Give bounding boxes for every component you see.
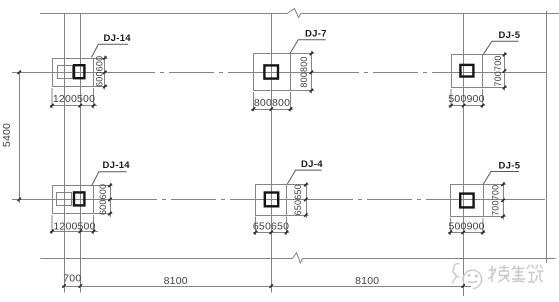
dim DJ-7 horizontal ext right bbox=[290, 92, 292, 112]
tick 5400 bottom bbox=[18, 198, 21, 201]
dim DJ-14 bottom horizontal 1200/500 line bbox=[50, 231, 98, 233]
dim DJ-7 vertical 800/800 line bbox=[311, 51, 313, 94]
svg-text:650650: 650650 bbox=[293, 184, 303, 215]
dim DJ-14 bottom horizontal ext left bbox=[51, 215, 53, 234]
ticks DJ-5 bottom vertical bbox=[501, 183, 504, 218]
top boundary line bbox=[40, 13, 559, 15]
svg-text:DJ-5: DJ-5 bbox=[499, 160, 521, 171]
dim DJ-5 bottom horizontal 500/900 line bbox=[448, 232, 485, 234]
ticks DJ-14 top vertical bbox=[103, 56, 106, 88]
svg-text:500900: 500900 bbox=[448, 221, 484, 233]
svg-text:600600: 600600 bbox=[98, 184, 108, 215]
svg-text:1200500: 1200500 bbox=[53, 93, 95, 105]
dim DJ-4 horizontal 650/650 line bbox=[253, 232, 289, 234]
footing DJ-7 : column bbox=[264, 65, 278, 78]
footing DJ-14 top : outline bbox=[53, 59, 94, 87]
dim DJ-4 horizontal ext right bbox=[286, 217, 288, 236]
bottom boundary line bbox=[41, 258, 556, 260]
break symbol top bbox=[287, 9, 301, 18]
dim DJ-14 top horizontal ext right bbox=[93, 88, 95, 109]
right boundary line bbox=[546, 11, 548, 263]
break symbol bottom bbox=[293, 253, 303, 263]
dim DJ-14 bottom horizontal ext right bbox=[93, 215, 95, 234]
dim DJ-4 horizontal ext left bbox=[255, 217, 257, 236]
svg-text:DJ-14: DJ-14 bbox=[103, 160, 131, 171]
svg-text:8100: 8100 bbox=[355, 275, 379, 287]
dim DJ-4 vertical ext top bbox=[287, 184, 309, 186]
dim DJ-14 top horizontal ext left bbox=[51, 88, 53, 109]
dim DJ-5 top vertical 700/700 line bbox=[504, 52, 506, 91]
dim DJ-14 bottom vertical 600/600 line bbox=[110, 183, 112, 217]
row axis B (y=199.4) center line bbox=[12, 199, 547, 201]
label DJ-4 leader bbox=[287, 170, 322, 185]
dim DJ-14 top vertical 600/600 line bbox=[104, 56, 106, 90]
svg-text:500900: 500900 bbox=[448, 93, 484, 105]
footing DJ-5 bottom : outline bbox=[451, 185, 484, 217]
label DJ-5 bottom leader bbox=[483, 172, 519, 185]
grid line 3 (x=271.2) bbox=[271, 14, 273, 293]
grid line 4 (x=463.2) bbox=[463, 14, 465, 297]
svg-text:700700: 700700 bbox=[491, 185, 501, 216]
row axis A (y=72.3) center line bbox=[12, 72, 547, 74]
tick 5400 top bbox=[18, 71, 21, 74]
footing DJ-4 : column bbox=[265, 193, 278, 207]
dim DJ-5 bottom vertical 700/700 line bbox=[503, 182, 505, 220]
footing DJ-14 bottom : pedestal bbox=[57, 193, 72, 206]
svg-text:1200500: 1200500 bbox=[53, 220, 95, 232]
dim DJ-5 bottom vertical ext top bbox=[483, 184, 506, 186]
label DJ-14 top leader bbox=[92, 44, 129, 57]
ticks DJ-5 top horizontal bbox=[449, 104, 484, 107]
svg-text:DJ-4: DJ-4 bbox=[301, 159, 323, 170]
dim DJ-4 vertical 650/650 line bbox=[306, 183, 308, 219]
grid line 2 (x=80.3) bbox=[80, 14, 82, 293]
label DJ-14 bottom leader bbox=[92, 172, 127, 186]
dim DJ-5 bottom horizontal ext right bbox=[482, 218, 484, 235]
dim DJ-5 top horizontal ext right bbox=[482, 89, 484, 108]
svg-text:800800: 800800 bbox=[299, 56, 309, 87]
ticks DJ-4 horizontal bbox=[254, 231, 288, 234]
dimension 5400 line bbox=[19, 73, 21, 204]
svg-text:800800: 800800 bbox=[254, 97, 290, 109]
footing DJ-5 top : column bbox=[460, 65, 473, 77]
footing DJ-14 top : pedestal bbox=[58, 66, 73, 79]
dim DJ-14 bottom vertical ext top bbox=[94, 185, 113, 187]
ticks DJ-5 bottom horizontal bbox=[449, 231, 485, 234]
svg-text:700700: 700700 bbox=[493, 55, 503, 86]
label DJ-5 top leader bbox=[483, 41, 519, 55]
ticks DJ-7 vertical bbox=[310, 52, 313, 92]
footing DJ-4 : outline bbox=[256, 185, 287, 216]
dim DJ-5 top horizontal 500/900 line bbox=[449, 105, 486, 107]
dim DJ-5 top horizontal ext left bbox=[450, 89, 452, 108]
overall bottom dimension line bbox=[62, 286, 471, 288]
watermark logo bbox=[452, 264, 482, 289]
svg-text:650650: 650650 bbox=[253, 221, 289, 233]
dim DJ-7 vertical ext bottom bbox=[291, 90, 315, 92]
svg-text:5400: 5400 bbox=[1, 123, 13, 147]
ticks DJ-7 horizontal bbox=[252, 107, 292, 110]
svg-text:600600: 600600 bbox=[95, 56, 105, 87]
grid line 1 (x=64) bbox=[64, 14, 66, 293]
watermark text 搜建筑 bbox=[488, 265, 544, 282]
svg-text:700: 700 bbox=[63, 273, 81, 285]
ticks DJ-14 top horizontal bbox=[50, 104, 95, 107]
ticks DJ-4 vertical bbox=[304, 183, 307, 217]
footing DJ-7 : outline bbox=[254, 54, 291, 91]
footing DJ-14 bottom : outline bbox=[53, 186, 94, 214]
dim DJ-7 vertical ext top bbox=[291, 53, 315, 55]
ticks overall bottom dimension bbox=[62, 284, 465, 287]
dim DJ-5 bottom vertical ext bottom bbox=[483, 216, 506, 218]
footing DJ-14 bottom : column bbox=[74, 192, 84, 205]
dim DJ-14 bottom vertical ext bottom bbox=[94, 213, 113, 215]
svg-text:DJ-7: DJ-7 bbox=[305, 28, 327, 39]
footing DJ-5 bottom : column bbox=[460, 194, 473, 208]
ticks DJ-14 bottom vertical bbox=[108, 184, 111, 216]
ticks DJ-5 top vertical bbox=[503, 53, 506, 89]
dim DJ-7 horizontal ext left bbox=[253, 92, 255, 112]
dim DJ-7 horizontal 800/800 line bbox=[251, 109, 293, 111]
dim DJ-4 vertical ext bottom bbox=[287, 215, 309, 217]
label DJ-7 leader bbox=[290, 40, 326, 54]
footing DJ-5 top : outline bbox=[452, 55, 483, 88]
svg-text:DJ-5: DJ-5 bbox=[499, 30, 521, 41]
svg-text:8100: 8100 bbox=[164, 275, 188, 287]
dim DJ-14 top vertical ext bottom bbox=[94, 86, 108, 88]
ticks DJ-14 bottom horizontal bbox=[50, 230, 95, 233]
dim DJ-5 top vertical ext bottom bbox=[483, 87, 508, 89]
dim DJ-14 top vertical ext top bbox=[94, 58, 108, 60]
dim DJ-14 top horizontal 1200/500 line bbox=[50, 105, 97, 107]
dim DJ-5 top vertical ext top bbox=[483, 54, 508, 56]
dim DJ-5 bottom horizontal ext left bbox=[449, 218, 451, 235]
footing DJ-14 top : column bbox=[74, 65, 84, 78]
svg-text:DJ-14: DJ-14 bbox=[104, 33, 132, 44]
